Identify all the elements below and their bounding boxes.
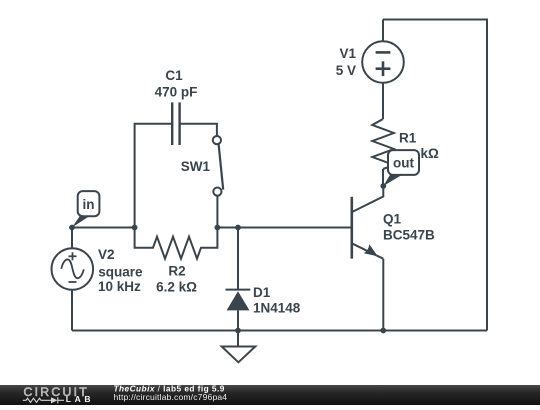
- switch SW1: [213, 136, 223, 196]
- svg-text:5 V: 5 V: [336, 63, 356, 78]
- node out junction: [380, 183, 386, 189]
- svg-text:10 kHz: 10 kHz: [98, 279, 141, 294]
- resistor R2: [135, 228, 218, 259]
- svg-text:C1: C1: [165, 68, 183, 83]
- svg-text:SW1: SW1: [181, 159, 211, 174]
- node D1 top junction: [235, 225, 241, 231]
- svg-text:470 pF: 470 pF: [155, 84, 198, 99]
- wire D1 branch top: [237, 228, 239, 290]
- svg-text:in: in: [83, 197, 95, 212]
- voltage source V2: [52, 248, 94, 290]
- svg-text:Q1: Q1: [383, 211, 402, 226]
- voltage source V1: [362, 41, 404, 83]
- wire emitter to bottom rail: [382, 259, 384, 331]
- capacitor C1: [172, 102, 179, 145]
- svg-text:kΩ: kΩ: [421, 146, 440, 161]
- node D1 bottom junction: [235, 328, 241, 334]
- logo resistor-diode squiggle: [23, 397, 64, 403]
- svg-text:1N4148: 1N4148: [253, 300, 301, 315]
- svg-text:V1: V1: [339, 46, 356, 61]
- wire D1 to bottom rail: [237, 310, 239, 330]
- svg-text:LAB: LAB: [66, 394, 94, 404]
- svg-text:http://circuitlab.com/c796pa4: http://circuitlab.com/c796pa4: [114, 392, 228, 402]
- node emitter bottom junction: [380, 328, 386, 334]
- node junction dots: [69, 183, 386, 333]
- svg-text:6.2 kΩ: 6.2 kΩ: [156, 279, 197, 294]
- transistor Q1: [352, 197, 384, 259]
- svg-text:R1: R1: [399, 131, 417, 146]
- wire collector: [352, 186, 384, 212]
- svg-text:BC547B: BC547B: [383, 228, 435, 243]
- ground: [222, 331, 256, 363]
- wire V1 to R1: [382, 83, 384, 119]
- svg-text:out: out: [393, 156, 414, 171]
- node SW1-R2 junction: [215, 225, 221, 231]
- wire SW1 to node: [216, 196, 218, 228]
- node label out: [383, 150, 419, 186]
- wire C1 left branch: [135, 124, 173, 228]
- wire C1 to SW1: [180, 124, 217, 136]
- wire SW1 node to base: [217, 227, 351, 229]
- svg-text:D1: D1: [253, 285, 271, 300]
- wire bottom rail: [72, 330, 487, 332]
- node label in: [72, 191, 99, 227]
- resistor R1: [372, 119, 394, 169]
- svg-text:R2: R2: [168, 264, 185, 279]
- node C1-R2 left junction: [132, 225, 138, 231]
- svg-text:V2: V2: [98, 247, 115, 262]
- wire V1 top lead: [382, 20, 384, 42]
- wire in node to V2: [71, 228, 73, 249]
- wire in node to C1 branch: [72, 227, 135, 229]
- wire R1 to out node: [382, 169, 384, 186]
- wire V2 to bottom rail: [71, 290, 73, 331]
- wire top rail V1 to right edge: [383, 20, 487, 331]
- diode D1: [226, 290, 251, 311]
- node in junction: [69, 225, 75, 231]
- svg-text:square: square: [98, 264, 143, 279]
